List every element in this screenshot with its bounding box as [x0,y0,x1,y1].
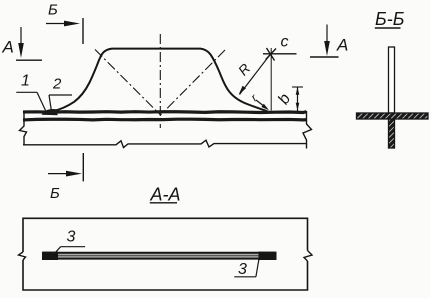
cover plate hump outline [52,49,268,112]
title Б-Б [375,9,405,29]
radius center mark (cross) [266,48,276,61]
svg-text:Б: Б [50,185,60,202]
А-А right edge break [304,251,312,262]
beam left edge with break [20,111,27,145]
А-А plate right end cap [259,252,277,260]
svg-text:1: 1 [21,73,30,90]
extension line from radius center to base [270,48,272,111]
dimension r leader [256,100,269,110]
section marker А (left): arrow line [16,27,42,60]
svg-text:3: 3 [67,229,76,246]
vertical centerline [159,34,161,128]
Б-Б base plate (hatched) [357,113,429,119]
base plate bottom edge [23,118,307,122]
svg-text:Б-Б: Б-Б [375,9,405,29]
part label 2 [49,76,72,112]
part label 3 (left) [56,229,85,252]
svg-text:R: R [235,60,254,78]
svg-text:3: 3 [238,261,247,278]
svg-text:А: А [336,36,348,55]
А-А plate 3 body [44,253,275,259]
svg-text:Б: Б [48,2,58,19]
weld bead at base of hump [44,110,57,114]
Б-Б vertical rib (below plate, hatched) [389,119,395,148]
diagonal centerline left [95,50,161,116]
part label 1 [16,73,46,112]
dimension R leader [239,54,271,95]
dimension c line [263,53,297,55]
svg-text:А-А: А-А [150,185,181,205]
А-А view box with break edges [23,218,308,290]
svg-text:b: b [275,91,294,108]
Б-Б vertical rib (above plate, outline) [389,47,395,113]
title А-А [150,185,181,205]
base plate top edge [23,110,307,114]
svg-text:r: r [249,92,261,104]
beam bottom line with breaks [23,140,307,147]
svg-text:2: 2 [52,76,62,93]
part label 3 (right) [234,259,259,278]
section marker Б (top): arrow line [46,18,83,44]
А-А left edge break [19,252,26,260]
section marker Б (bottom): arrow line [48,153,83,181]
А-А plate left end cap [42,252,58,260]
beam right edge with break [303,111,312,149]
svg-text:А: А [2,38,14,57]
section marker А (right): arrow line [310,25,339,58]
diagonal centerline right [161,50,226,115]
dimension b [292,87,303,113]
svg-text:c: c [281,34,289,51]
